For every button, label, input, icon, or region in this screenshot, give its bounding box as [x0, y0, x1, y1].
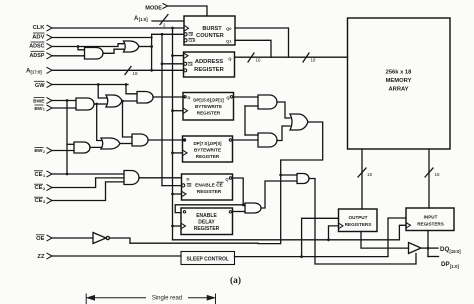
box sleep control: [181, 252, 235, 265]
svg-text:DP[7:0],DP[0]: DP[7:0],DP[0]: [193, 141, 222, 146]
junction OR out / V1: [150, 45, 153, 48]
slash 18 in: [425, 168, 433, 177]
wire OE input: [52, 237, 93, 239]
input wedge A: [47, 67, 53, 73]
overbar ece CE pin: [187, 183, 192, 185]
wire ADSP input: [52, 55, 85, 57]
wire W enable vertical: [244, 106, 246, 135]
svg-text:INPUT: INPUT: [424, 215, 438, 220]
junction CLK/burst: [171, 27, 174, 30]
svg-text:BYTEWRITE: BYTEWRITE: [194, 147, 221, 152]
svg-text:MEMORY: MEMORY: [386, 78, 412, 84]
svg-text:1: 1: [43, 108, 45, 112]
gate AND delay: [245, 203, 261, 213]
svg-text:ADV: ADV: [32, 35, 44, 41]
svg-text:18: 18: [367, 172, 373, 177]
box memory array: [348, 18, 451, 149]
svg-text:CE: CE: [187, 184, 192, 188]
overbar ADV: [33, 32, 45, 34]
svg-text:D: D: [187, 176, 190, 181]
box enable delay register: [181, 208, 233, 235]
svg-text:ADDRESS: ADDRESS: [195, 59, 223, 65]
wire CE3 input: [52, 182, 124, 201]
input wedge MODE: [163, 3, 168, 8]
overbar CE2: [34, 183, 43, 185]
input wedge CE1: [47, 171, 53, 177]
wire CLK to bytewrite2 clock: [173, 152, 183, 154]
gate OR top: [124, 41, 140, 52]
gate OR O3: [132, 134, 148, 146]
wire OR4 out: [120, 143, 132, 145]
wire OR-TOP output to CLR: [139, 46, 152, 48]
wire memory to input registers: [428, 149, 430, 208]
box enable CE register: [182, 174, 233, 200]
bubble burst counter CLR: [184, 39, 187, 42]
svg-text:[1:0]: [1:0]: [139, 17, 148, 22]
bubble address register CE: [184, 62, 187, 65]
svg-text:Single read: Single read: [152, 295, 182, 301]
junction O1 out: [121, 100, 124, 103]
svg-text:DQ: DQ: [440, 246, 449, 253]
svg-text:REGISTER: REGISTER: [194, 226, 220, 232]
wire AND-D out: [261, 181, 297, 208]
overbar BW1: [35, 104, 44, 106]
overbar enable CE title: [217, 181, 224, 183]
svg-text:256k x 18: 256k x 18: [386, 70, 413, 76]
junction V2/addr CE: [161, 62, 164, 65]
wire ADSC input: [52, 47, 85, 50]
wire memory to output registers: [361, 149, 363, 209]
overbar ar CE pin: [188, 61, 193, 63]
wire W1 out: [277, 102, 290, 118]
wire BWE input: [52, 100, 76, 102]
svg-text:REGISTER: REGISTER: [196, 154, 220, 159]
svg-text:ENABLE CE: ENABLE CE: [195, 183, 224, 189]
junction CE1: [66, 173, 69, 176]
clock wedge input registers: [406, 223, 411, 229]
bubble address register pin3: [184, 69, 187, 72]
wire bytewrite2 Q: [233, 139, 259, 141]
box output registers: [339, 209, 378, 232]
svg-text:OE: OE: [36, 236, 45, 242]
wire DQ out: [428, 247, 438, 249]
junction A1 out: [95, 103, 98, 106]
svg-text:OUTPUT: OUTPUT: [349, 215, 368, 220]
slash 18 addr: [303, 53, 309, 62]
svg-text:ZZ: ZZ: [37, 254, 45, 260]
arrow right end bar: [215, 294, 217, 304]
overbar ADSC: [31, 41, 45, 43]
wire OE branch to enable AND chain: [130, 175, 281, 244]
wire CE gate out to enable-CE D: [139, 177, 182, 179]
wire BWE vertical: [66, 101, 68, 175]
overbar GW: [34, 80, 45, 82]
svg-text:CE: CE: [189, 33, 194, 37]
svg-text:16: 16: [256, 58, 262, 63]
clock wedge enable-CE: [182, 191, 187, 197]
pin circle bytewrite2 D: [183, 139, 185, 141]
wire CE2 input: [52, 178, 124, 188]
overbar OE: [36, 234, 45, 236]
wire OR3 out to bytewrite2 D: [148, 139, 185, 141]
gate AND W2: [258, 133, 277, 147]
wire Q0: [235, 28, 289, 57]
arrow left end bar: [85, 294, 87, 304]
inverter OE: [93, 233, 106, 244]
wire AND-U out to buffer enable: [309, 179, 416, 265]
wire address bus to memory: [235, 56, 348, 58]
wire DP out: [428, 256, 439, 258]
overbar CE3: [34, 196, 43, 198]
wire AND1 branch to OR4 input: [97, 104, 101, 141]
box address register: [184, 52, 235, 77]
svg-text:[17:0]: [17:0]: [31, 70, 43, 75]
gate OR O2: [137, 92, 153, 104]
wire clock line to register wedges: [173, 225, 407, 240]
svg-text:Q: Q: [228, 56, 231, 61]
gate AND A1: [76, 98, 94, 110]
svg-text:REGISTERS: REGISTERS: [417, 221, 444, 226]
input wedge BW2: [47, 147, 53, 153]
input wedge GW: [47, 81, 53, 87]
wire AND2 out: [90, 146, 101, 148]
svg-text:D: D: [188, 95, 191, 100]
junction CLK/addr clock: [171, 54, 174, 57]
clock wedge output registers: [339, 223, 344, 229]
svg-text:DELAY: DELAY: [198, 219, 215, 225]
wire bus to enable-CE register CE: [162, 185, 182, 187]
wire CE1 input: [52, 173, 124, 175]
svg-text:[15:0]: [15:0]: [450, 249, 462, 254]
junction CLK enable-CE: [171, 193, 174, 196]
wire bus to address register CE: [162, 63, 184, 65]
junction CLK enable-delay: [171, 225, 174, 228]
svg-text:DP: DP: [441, 261, 450, 268]
svg-text:[1:0]: [1:0]: [450, 264, 459, 269]
svg-text:REGISTER: REGISTER: [197, 189, 222, 195]
junction ADSC split: [77, 45, 80, 48]
wire ADV input: [52, 37, 152, 39]
wire BW1 input: [52, 107, 76, 109]
wire CLK to enable-CE clock: [173, 193, 182, 195]
svg-text:REGISTERS: REGISTERS: [345, 222, 372, 227]
clock wedge enable-delay: [181, 223, 186, 229]
bubble enable-CE register CE: [182, 184, 185, 187]
wire W2 out: [277, 126, 290, 141]
junction DQ: [427, 247, 430, 250]
wire CE line to burst counter: [152, 33, 184, 35]
wire bytewrite1 Q: [234, 96, 259, 98]
wire load vertical bus: [161, 34, 163, 185]
wire A[1:0] to burst counter: [152, 20, 184, 22]
arrowhead right: [207, 296, 214, 300]
slash A[1:0] 2: [160, 15, 168, 25]
clock wedge burst counter: [184, 25, 189, 31]
gate AND W1: [258, 95, 277, 109]
wire buffer out junction: [421, 247, 428, 249]
bubble burst counter CE: [184, 33, 187, 36]
gate AND CE (3 input): [124, 171, 139, 185]
svg-text:BYTEWRITE: BYTEWRITE: [195, 104, 222, 109]
wire CLK to address register clock: [173, 55, 184, 57]
svg-text:CE: CE: [34, 172, 42, 178]
junction OE / AND-U: [279, 174, 282, 177]
pin circle enable-delay Q: [229, 211, 231, 213]
svg-text:CLK: CLK: [33, 25, 46, 31]
svg-text:18: 18: [435, 172, 441, 177]
svg-text:18: 18: [311, 58, 317, 63]
junction CLK bytewrite1: [171, 109, 174, 112]
wire BW2 input: [52, 150, 74, 152]
input wedge CLK: [47, 25, 53, 31]
wire OR2 out to bytewrite1 D: [153, 96, 185, 98]
wire sleep branch to output registers: [302, 218, 339, 256]
wire CLK to enable-delay clock: [173, 225, 182, 227]
svg-text:REGISTER: REGISTER: [197, 110, 221, 115]
pin circle bytewrite1 D: [184, 96, 186, 98]
svg-text:CE: CE: [188, 63, 193, 67]
wire OR1 out: [122, 100, 137, 102]
timing arrow single read: [86, 294, 215, 304]
svg-text:CLR: CLR: [189, 39, 197, 43]
junction CE line / V2: [161, 33, 164, 36]
svg-text:2: 2: [43, 150, 45, 154]
slash 18 out: [358, 168, 366, 177]
junction ece Q / ed D: [242, 203, 245, 206]
svg-text:BURST: BURST: [202, 26, 222, 32]
gate AND A2: [74, 142, 90, 153]
svg-text:18: 18: [133, 71, 139, 76]
svg-text:REGISTER: REGISTER: [194, 67, 224, 73]
junction sleep branch: [300, 255, 303, 258]
input wedge ADSC: [47, 43, 53, 49]
overbar bc CE pin: [188, 32, 193, 34]
pin circle enable-CE Q: [229, 177, 231, 179]
wire sleep control out: [235, 218, 407, 257]
wire W2 in1: [245, 134, 258, 136]
svg-text:ADSP: ADSP: [30, 53, 45, 59]
input wedge BW1: [47, 105, 53, 111]
wire ZZ input: [52, 255, 181, 257]
junction GW v1: [97, 83, 100, 86]
wire GW to AND-O2 input: [126, 85, 137, 94]
wire enable-CE Q: [233, 178, 246, 206]
wire CLK to burst counter clock: [52, 27, 184, 29]
clock wedge bytewrite2: [183, 150, 188, 156]
wire GW to OR1 input: [98, 85, 106, 99]
wire MODE input: [168, 6, 207, 16]
input wedge BWE: [47, 97, 53, 103]
input wedge ADSP: [47, 53, 53, 59]
overbar ADSP: [31, 50, 45, 52]
clock wedge address register: [184, 53, 189, 59]
wire Q1: [235, 40, 271, 57]
svg-text:ADSC: ADSC: [29, 44, 44, 50]
wire AND1 out: [94, 103, 106, 105]
buffer DQ: [409, 243, 422, 254]
svg-text:GW: GW: [35, 83, 45, 89]
arrow shaft left: [88, 297, 146, 299]
svg-text:Q0: Q0: [226, 26, 232, 31]
gate OR W: [290, 114, 308, 130]
svg-text:BW: BW: [34, 106, 43, 112]
box input registers: [406, 208, 454, 231]
wire output registers to buffer: [361, 232, 409, 249]
slash A bus 18: [125, 67, 131, 75]
gate OR O4: [101, 138, 120, 149]
slash 16: [248, 53, 254, 62]
svg-text:MODE: MODE: [145, 6, 162, 12]
wire OR1 branch to O3 input: [123, 101, 133, 137]
svg-text:CE: CE: [34, 198, 42, 204]
input wedge ADV: [47, 34, 53, 40]
junction CLK bytewrite2: [171, 152, 174, 155]
svg-text:Q: Q: [226, 95, 229, 100]
wire DQ vertical: [427, 231, 429, 257]
svg-text:DP[15:8],DP[1]: DP[15:8],DP[1]: [193, 97, 224, 102]
overbar BW2: [35, 146, 44, 148]
svg-text:SLEEP CONTROL: SLEEP CONTROL: [186, 256, 228, 262]
junction OE branch: [327, 238, 330, 241]
box burst counter: [184, 16, 235, 45]
wire CLK vertical bus: [172, 28, 174, 240]
junction BWE: [66, 99, 69, 102]
wire ADSC branch to OR gate: [78, 44, 124, 47]
junction V1/A bus: [150, 69, 153, 72]
wire ADV vertical bus: [151, 34, 153, 70]
svg-text:BW: BW: [34, 148, 43, 154]
box bytewrite register 2: [183, 136, 233, 162]
svg-text:COUNTER: COUNTER: [196, 33, 224, 39]
wire AND-U in1: [281, 174, 297, 176]
clock wedge bytewrite1: [183, 108, 188, 114]
overbar BWE: [34, 97, 45, 99]
wire OE branch to output registers: [329, 226, 339, 240]
wire enable-delay Q: [233, 211, 246, 213]
box bytewrite register 1: [183, 93, 234, 121]
input wedge OE: [47, 235, 53, 241]
wire OE after inverter: [110, 238, 131, 243]
wire A[17:0] input bus: [52, 69, 184, 71]
pin circle enable-delay D: [183, 211, 185, 213]
overbar bc CLR pin: [188, 38, 194, 40]
input wedge CE2: [47, 184, 53, 190]
svg-text:Q: Q: [225, 176, 228, 181]
svg-text:BWE: BWE: [33, 98, 45, 104]
svg-text:Q1: Q1: [226, 38, 232, 43]
pin circle bytewrite1 Q: [230, 96, 232, 98]
wire AND-ADS output to OR gate: [103, 49, 124, 53]
junction GW v2: [125, 83, 128, 86]
arrow shaft right: [188, 297, 214, 299]
wire W1 in2: [245, 105, 258, 107]
input wedge CE3: [47, 197, 53, 203]
svg-text:(a): (a): [230, 275, 241, 286]
pin circle bytewrite2 Q: [229, 139, 231, 141]
gate AND ADSC/ADSP: [85, 48, 104, 60]
gate AND U: [297, 174, 309, 184]
svg-text:ENABLE: ENABLE: [196, 213, 217, 219]
arrowhead left: [87, 296, 94, 300]
wire BWE to AND2: [67, 143, 74, 145]
wire GW input: [52, 84, 128, 86]
wire OR-W out to input registers: [281, 122, 323, 175]
wire enable-CE Q to enable-delay D: [175, 205, 243, 213]
svg-text:ARRAY: ARRAY: [388, 87, 408, 93]
wire CLK to bytewrite1 clock: [173, 110, 184, 112]
overbar CE1: [34, 170, 43, 172]
gate OR O1: [106, 95, 122, 107]
input wedge ZZ: [47, 253, 53, 259]
svg-text:CE: CE: [34, 185, 42, 191]
